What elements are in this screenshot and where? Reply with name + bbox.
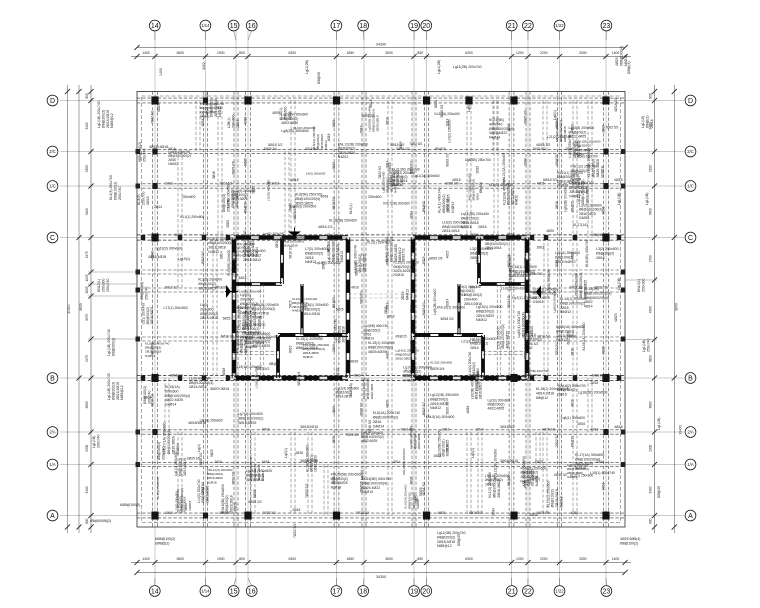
wall post (532,378) [530, 375, 534, 380]
beam left wing y272 [137, 270, 236, 274]
edge post left y432 [136, 430, 141, 435]
svg-text:3Ø18 3/2: 3Ø18 3/2 [500, 425, 514, 429]
svg-text:4Ø25: 4Ø25 [385, 350, 389, 358]
svg-text:2Ø14: 2Ø14 [154, 205, 162, 209]
svg-text:KL19(1A) 200x600: KL19(1A) 200x600 [235, 365, 263, 369]
svg-text:4Ø18: 4Ø18 [222, 367, 226, 375]
svg-text:2/C: 2/C [49, 149, 56, 154]
svg-text:2Ø18;2Ø18: 2Ø18;2Ø18 [375, 115, 379, 131]
secondary beam x496 [494, 101, 498, 238]
svg-text:1850: 1850 [346, 51, 354, 55]
svg-text:4Ø18: 4Ø18 [243, 116, 247, 124]
small column at (155,151.5) [152, 149, 157, 155]
svg-text:3Ø18 5/2: 3Ø18 5/2 [537, 334, 550, 338]
grid line 1/22 [559, 31, 561, 587]
svg-text:NØ8@12: NØ8@12 [120, 385, 124, 400]
svg-text:Ø8@100(2): Ø8@100(2) [556, 329, 574, 333]
svg-text:2Ø16: 2Ø16 [373, 420, 382, 424]
small column at (606,186) [603, 183, 608, 189]
beam right wing y272 [527, 270, 625, 274]
svg-text:3300: 3300 [579, 557, 587, 561]
svg-text:6Ø25 2/6: 6Ø25 2/6 [567, 331, 571, 344]
grid bubble 18 bottom [358, 578, 369, 596]
svg-text:2Ø16;3Ø20: 2Ø16;3Ø20 [476, 314, 494, 318]
svg-text:800: 800 [85, 518, 89, 524]
svg-text:15: 15 [230, 589, 238, 596]
svg-text:3Ø16: 3Ø16 [577, 422, 585, 426]
edge post left y339 [136, 337, 141, 342]
svg-text:3500: 3500 [385, 51, 393, 55]
svg-text:KL2(1) 250x600: KL2(1) 250x600 [570, 474, 593, 478]
beam label Lg1(1B) 200x740 [107, 329, 115, 356]
svg-text:2Ø14: 2Ø14 [315, 334, 323, 338]
svg-text:34300: 34300 [376, 575, 386, 579]
svg-text:3Ø18 5/2: 3Ø18 5/2 [332, 197, 336, 210]
secondary beam x198 [196, 101, 200, 152]
svg-text:5Ø25: 5Ø25 [415, 495, 419, 503]
svg-text:3Ø18 5/2: 3Ø18 5/2 [201, 251, 205, 264]
right core wall x479 [478, 238, 481, 285]
grid line 14 [154, 31, 156, 587]
svg-text:N4Ø14: N4Ø14 [362, 490, 373, 494]
svg-text:4Ø22;4Ø25: 4Ø22;4Ø25 [370, 383, 374, 399]
beam label KL16(1) 200x500 [510, 265, 537, 278]
svg-text:4Ø25: 4Ø25 [615, 57, 619, 66]
left core top wall [234, 236, 348, 240]
secondary beam x180 [178, 152, 182, 238]
section flag 2 [225, 285, 238, 298]
svg-text:3Ø16 3/2: 3Ø16 3/2 [524, 342, 538, 346]
svg-text:N4Ø14: N4Ø14 [261, 470, 265, 480]
svg-text:2Ø18: 2Ø18 [275, 240, 279, 248]
column at (514,100.5) [510, 97, 517, 105]
svg-text:4Ø22;4Ø25: 4Ø22;4Ø25 [487, 407, 504, 411]
svg-text:1/22: 1/22 [555, 23, 564, 28]
svg-text:6Ø25 2/6: 6Ø25 2/6 [354, 262, 358, 275]
right dimension chain [649, 85, 657, 533]
beam label 2&#216;16 [478, 225, 487, 229]
grid bubble 20 bottom [421, 578, 432, 596]
svg-text:1003: 1003 [85, 286, 89, 293]
svg-text:200x500: 200x500 [240, 297, 253, 301]
svg-text:Lg13(3) 300x600: Lg13(3) 300x600 [156, 246, 183, 250]
svg-text:2200: 2200 [540, 51, 548, 55]
beam on grid 20 [425, 92, 429, 528]
beam label 5&#216;25 [419, 487, 423, 496]
svg-text:6Ø18 3/2: 6Ø18 3/2 [422, 482, 426, 495]
svg-text:A: A [50, 513, 55, 520]
svg-text:2Ø18: 2Ø18 [332, 344, 336, 352]
svg-text:5Ø25: 5Ø25 [535, 460, 543, 464]
svg-text:6300: 6300 [288, 51, 296, 55]
column at (155,237.5) [151, 234, 158, 242]
left core beam x262 [260, 284, 264, 378]
beam label L7(2) 200x600 [305, 247, 328, 264]
beam label Lq8(1) 200x600 [205, 92, 222, 117]
svg-text:Lq3(1): Lq3(1) [471, 448, 475, 458]
svg-text:2Ø18: 2Ø18 [507, 123, 511, 131]
svg-text:2Ø18;3Ø25: 2Ø18;3Ø25 [497, 479, 501, 498]
svg-text:5Ø25 5/4: 5Ø25 5/4 [430, 367, 444, 371]
right core wall x483 [482, 335, 485, 378]
svg-text:2Ø18;3Ø25: 2Ø18;3Ø25 [446, 195, 450, 213]
svg-text:4Ø25;4Ø25: 4Ø25;4Ø25 [368, 350, 386, 354]
svg-text:Lg7(1): Lg7(1) [240, 293, 250, 297]
svg-text:Lg11(3B) 200x740: Lg11(3B) 200x740 [437, 531, 466, 535]
beam label KL3(3) [137, 192, 150, 205]
beam label 4&#216;18 2/2 [614, 98, 618, 112]
left core right wall [346, 238, 350, 379]
svg-text:4Ø16: 4Ø16 [332, 406, 336, 414]
svg-text:6Ø18 3/2: 6Ø18 3/2 [422, 402, 426, 415]
svg-text:20: 20 [422, 23, 430, 30]
beam label 5&#216;25 [157, 103, 161, 112]
secondary beam x293 [291, 101, 295, 238]
grid line A [60, 515, 684, 517]
grid bubble 22 top [523, 20, 534, 40]
beam label Lq1(1B) [617, 193, 621, 205]
svg-text:250x740: 250x740 [106, 279, 110, 292]
beam label &#216;8@100(2) [143, 386, 151, 404]
svg-text:3Ø18 5/2: 3Ø18 5/2 [170, 373, 183, 377]
beam label KNL3(1) [637, 279, 645, 292]
svg-text:5Ø25: 5Ø25 [210, 449, 214, 457]
svg-text:B: B [688, 376, 693, 383]
column at (426.5,100.5) [423, 97, 430, 105]
svg-text:800: 800 [649, 93, 653, 99]
svg-text:5Ø25: 5Ø25 [601, 346, 605, 354]
svg-text:2Ø14;2Ø18: 2Ø14;2Ø18 [189, 385, 207, 389]
beam right wing y290 [527, 288, 625, 292]
svg-text:N2Ø18: N2Ø18 [461, 225, 472, 229]
svg-text:4Ø16: 4Ø16 [239, 276, 247, 280]
svg-text:2Ø18: 2Ø18 [570, 348, 574, 356]
svg-text:2Ø18: 2Ø18 [555, 201, 559, 209]
svg-text:Ø8@25: Ø8@25 [395, 334, 406, 338]
grid bubble 1/A left [47, 459, 58, 470]
grid line 22 [527, 31, 529, 587]
grid bubble 16 bottom [246, 578, 257, 596]
secondary beam x167 [165, 378, 169, 432]
svg-text:KL14(5B) 400x740: KL14(5B) 400x740 [362, 477, 391, 481]
svg-text:Lg11(2B): Lg11(2B) [305, 60, 309, 74]
svg-text:4Ø16: 4Ø16 [571, 511, 579, 515]
svg-text:250x600: 250x600 [182, 195, 195, 199]
left sub-total dimension line 9600 [76, 85, 82, 533]
svg-text:1/22: 1/22 [555, 589, 564, 594]
svg-text:4Ø22;4Ø25: 4Ø22;4Ø25 [246, 341, 264, 345]
svg-text:6Ø25 2/6: 6Ø25 2/6 [231, 161, 235, 174]
svg-text:Ø8@12: Ø8@12 [536, 396, 548, 400]
svg-text:2Ø16: 2Ø16 [236, 119, 240, 128]
svg-text:3Ø18 5/2: 3Ø18 5/2 [199, 452, 203, 465]
svg-text:2Ø18;2Ø18: 2Ø18;2Ø18 [106, 110, 110, 128]
svg-text:21: 21 [508, 589, 516, 596]
svg-text:KL17(1A): KL17(1A) [573, 223, 588, 227]
svg-text:2Ø14;2Ø18: 2Ø14;2Ø18 [485, 246, 502, 250]
svg-text:2Ø16: 2Ø16 [457, 293, 465, 297]
svg-text:3Ø18 5/2: 3Ø18 5/2 [591, 373, 604, 377]
svg-text:N4Ø12: N4Ø12 [515, 195, 519, 205]
right sub-total dimension line [672, 85, 683, 533]
svg-text:4Ø18: 4Ø18 [614, 425, 623, 429]
svg-text:N4Ø12: N4Ø12 [168, 162, 178, 166]
beam label 4&#216;18 [614, 425, 623, 429]
beam row 1/C [137, 184, 625, 188]
beam corridor y296 [348, 294, 413, 298]
svg-text:2/C: 2/C [687, 149, 694, 154]
wall post (532,237.5) [530, 235, 534, 240]
grid line 1/C [60, 185, 684, 187]
svg-text:4Ø16: 4Ø16 [327, 133, 331, 141]
svg-text:4Ø18: 4Ø18 [332, 162, 336, 170]
secondary beam x575 [573, 101, 577, 238]
secondary beam x326 [324, 465, 328, 516]
beam label Lg1(1B) [92, 435, 100, 448]
svg-text:5Ø25: 5Ø25 [226, 220, 230, 228]
svg-text:Lg1(18): Lg1(18) [641, 116, 645, 128]
svg-text:7Ø22 5/2: 7Ø22 5/2 [507, 295, 511, 308]
svg-text:250x740: 250x740 [144, 287, 148, 300]
svg-text:2Ø14: 2Ø14 [143, 395, 151, 399]
svg-text:6Ø25 2/6: 6Ø25 2/6 [594, 285, 607, 289]
wall post (575,237.5) [573, 235, 577, 240]
svg-text:L4(3) 200x600: L4(3) 200x600 [306, 171, 326, 175]
left core wall x302 [301, 284, 303, 335]
beam label 4&#216;25 2/6 [293, 206, 297, 220]
svg-text:L15(1) 400x740: L15(1) 400x740 [590, 471, 615, 475]
svg-text:3Ø25;3Ø25: 3Ø25;3Ø25 [198, 286, 216, 290]
column at (155,378) [151, 374, 158, 382]
svg-text:7Ø22 5/2: 7Ø22 5/2 [293, 524, 297, 538]
svg-text:3400: 3400 [649, 486, 653, 493]
svg-text:Ø8@100/200(2): Ø8@100/200(2) [238, 416, 263, 420]
svg-text:N2Ø18: N2Ø18 [207, 480, 217, 484]
svg-text:7Ø22 5/2: 7Ø22 5/2 [605, 125, 618, 129]
secondary beam x180 [178, 238, 182, 291]
edge post left y290 [136, 288, 141, 293]
svg-text:L6(1A) 250x600: L6(1A) 250x600 [555, 251, 580, 255]
svg-text:Lq11(1A) 300x600: Lq11(1A) 300x600 [413, 174, 439, 178]
grid line D [60, 100, 684, 102]
grid bubble D left [47, 95, 58, 106]
svg-text:Ø8@100/200(4): Ø8@100/200(4) [295, 197, 320, 201]
svg-text:6Ø18 3/2: 6Ø18 3/2 [543, 178, 557, 182]
svg-text:Lg11(2B) 200x740: Lg11(2B) 200x740 [453, 65, 482, 69]
small column at (205.5,100.5) [203, 98, 208, 104]
edge post right y290 [621, 288, 626, 293]
beam label &#216;8@50&#216;8(2) [90, 519, 111, 523]
svg-text:5Ø18 3/2: 5Ø18 3/2 [165, 285, 178, 289]
beam label L6(1A) 250x600 [555, 251, 580, 264]
beam label Lg11(2B) [437, 60, 441, 74]
svg-text:N4Ø12: N4Ø12 [430, 406, 441, 410]
svg-text:4Ø25: 4Ø25 [546, 229, 554, 233]
svg-text:6Ø18 3/2: 6Ø18 3/2 [469, 511, 482, 515]
svg-text:7Ø22 5/2: 7Ø22 5/2 [263, 511, 276, 515]
svg-text:L21(3) 200x740: L21(3) 200x740 [461, 340, 485, 344]
svg-text:4300: 4300 [649, 306, 653, 313]
edge post right y186 [621, 184, 626, 189]
svg-text:2Ø18: 2Ø18 [560, 306, 569, 310]
beam label Lg10(2) 200x500 [470, 337, 497, 350]
beam label KL17(1A) 300x600 [575, 453, 604, 470]
left extension line y296 [88, 295, 137, 297]
grid bubble 14 bottom [149, 578, 160, 596]
beam label KL10(1) 200x500 [560, 297, 587, 314]
svg-text:9600: 9600 [79, 303, 83, 311]
svg-text:2475: 2475 [85, 251, 89, 258]
svg-text:L19(2) 250x700: L19(2) 250x700 [255, 367, 259, 388]
beam row 1/A [137, 462, 625, 466]
svg-text:KL4(1) 400x740: KL4(1) 400x740 [438, 188, 442, 213]
grid line 19 [413, 31, 415, 587]
grid line 23 [605, 31, 607, 587]
bottom dimension chain [131, 557, 631, 565]
wall post (204,378) [202, 375, 206, 380]
svg-text:2Ø16: 2Ø16 [214, 460, 222, 464]
svg-text:2Ø18;2Ø18: 2Ø18;2Ø18 [437, 540, 455, 544]
secondary beam x590 [588, 101, 592, 238]
svg-text:Ø8@100/200(2): Ø8@100/200(2) [560, 301, 585, 305]
beam label L2B(1) [227, 115, 240, 128]
beam label KL11(1) [524, 333, 542, 350]
svg-text:4Ø18: 4Ø18 [290, 178, 299, 182]
svg-text:4Ø12: 4Ø12 [524, 346, 533, 350]
grid bubble 1/22 top [554, 20, 565, 40]
beam label 4&#216;18 2/2 [536, 143, 550, 147]
beam label &#216;8@25 [457, 534, 461, 546]
svg-text:6Ø8@100(2): 6Ø8@100(2) [155, 537, 175, 541]
svg-text:N4Ø14: N4Ø14 [451, 202, 455, 213]
svg-text:Lg1(1B): Lg1(1B) [92, 436, 96, 448]
svg-text:4Ø22: 4Ø22 [584, 300, 593, 304]
svg-text:16: 16 [248, 589, 256, 596]
svg-text:Lg1(1B) 200x740: Lg1(1B) 200x740 [107, 373, 111, 400]
dense beam annotation filler [142, 102, 615, 512]
svg-text:18: 18 [359, 589, 367, 596]
svg-text:G4Ø14: G4Ø14 [530, 326, 534, 337]
svg-text:KL6(5B) 250x700: KL6(5B) 250x700 [295, 192, 322, 196]
svg-text:7Ø22 5/2: 7Ø22 5/2 [555, 434, 559, 447]
beam label &#216;6@150(2) [464, 293, 482, 306]
svg-text:N2Ø18: N2Ø18 [558, 184, 569, 188]
svg-text:G4Ø14: G4Ø14 [579, 216, 590, 220]
svg-text:Ø8@50Ø8(2): Ø8@50Ø8(2) [90, 519, 111, 523]
edge post right y272 [621, 270, 626, 275]
svg-text:L2B(1): L2B(1) [227, 117, 231, 128]
beam label KL21(5B) [489, 118, 514, 140]
secondary beam x545 [543, 432, 547, 516]
svg-text:7Ø22 5/2: 7Ø22 5/2 [378, 166, 382, 179]
grid bubble 21 bottom [506, 578, 517, 596]
beam on grid 22 [526, 92, 530, 528]
svg-text:3400: 3400 [85, 208, 89, 215]
svg-text:3Ø18 5/2: 3Ø18 5/2 [215, 285, 228, 289]
beam label Lg9(1) [530, 477, 540, 481]
svg-text:2Ø16: 2Ø16 [359, 125, 363, 133]
svg-text:Ø8@25: Ø8@25 [359, 481, 363, 492]
beam label Lg15(1) 200x500 [476, 305, 503, 322]
svg-text:4Ø18: 4Ø18 [614, 178, 623, 182]
svg-text:19: 19 [410, 23, 418, 30]
grid line C [60, 237, 684, 239]
svg-text:5Ø25: 5Ø25 [422, 256, 426, 264]
svg-text:2Ø18: 2Ø18 [650, 119, 654, 128]
beam row 2/A [137, 430, 625, 434]
svg-text:2Ø16: 2Ø16 [523, 158, 527, 166]
grid bubble 23 bottom [601, 578, 612, 596]
svg-text:2Ø18;2Ø18: 2Ø18;2Ø18 [563, 126, 567, 142]
svg-text:Lq7(1) 200x600: Lq7(1) 200x600 [512, 296, 537, 300]
svg-text:L9(1): L9(1) [200, 303, 208, 307]
beam label Lg1(1) 200x600 [174, 451, 187, 476]
svg-text:C: C [50, 235, 55, 242]
beam label Lg1(1B) [617, 278, 621, 290]
secondary beam x293 [291, 432, 295, 516]
svg-text:Ø8@25: Ø8@25 [555, 154, 559, 165]
beam row A (frame beam) [137, 513, 625, 518]
svg-text:4Ø16: 4Ø16 [591, 427, 599, 431]
svg-text:Ø8@25: Ø8@25 [457, 534, 461, 546]
column at (155,515.5) [151, 512, 158, 520]
svg-text:800: 800 [239, 557, 245, 561]
svg-text:4Ø14: 4Ø14 [584, 305, 593, 309]
svg-text:N4Ø14: N4Ø14 [176, 443, 180, 454]
svg-text:21: 21 [508, 23, 516, 30]
beam on grid 17 [334, 92, 339, 528]
svg-text:6Ø18 3/2: 6Ø18 3/2 [249, 500, 262, 504]
right core wall y284 [479, 283, 527, 286]
secondary beam x590 [588, 378, 592, 432]
svg-text:5Ø25: 5Ø25 [252, 186, 256, 194]
grid line 2/C [60, 151, 684, 153]
svg-text:7Ø22 5/2: 7Ø22 5/2 [231, 471, 235, 484]
right core partition y353 [483, 351, 527, 355]
svg-text:2Ø18: 2Ø18 [292, 508, 300, 512]
svg-text:Ø8@100/200(4): Ø8@100/200(4) [362, 481, 387, 485]
svg-text:Ø8@200(2): Ø8@200(2) [200, 312, 218, 316]
svg-text:KL1(3) 200x500: KL1(3) 200x500 [488, 472, 492, 497]
beam label Lg11(2B) [305, 60, 309, 74]
svg-text:1400: 1400 [142, 51, 150, 55]
secondary beam x310 [308, 432, 312, 516]
edge post left y186 [136, 184, 141, 189]
svg-text:KL21(2B) 200x740: KL21(2B) 200x740 [392, 168, 420, 172]
svg-text:Ø8@25: Ø8@25 [435, 147, 446, 151]
left extension line y339 [88, 338, 137, 340]
beam label 4&#216;18/3&#216;18 [188, 421, 206, 425]
svg-text:3Ø18/2Ø16: 3Ø18/2Ø16 [500, 459, 518, 463]
wall post (619,378) [617, 375, 621, 380]
beam label KL15(1) 200x450 [296, 337, 323, 350]
svg-text:KL21(5B): KL21(5B) [489, 118, 504, 122]
beam label Lg1(1B) [642, 339, 650, 352]
beam label L3(2) 200x500 [596, 247, 619, 260]
svg-text:5Ø25: 5Ø25 [157, 103, 161, 112]
beam label 4&#216;25 [615, 46, 628, 66]
right core right wall [525, 238, 529, 379]
svg-text:7Ø22 5/2: 7Ø22 5/2 [356, 511, 369, 515]
beam label Lg12(1B) 250x600 [430, 393, 459, 410]
grid bubble 19 bottom [409, 578, 420, 596]
beam label &#216;8@100(2) [157, 442, 165, 460]
svg-text:7Ø22 5/2: 7Ø22 5/2 [409, 142, 422, 146]
svg-text:2Ø16: 2Ø16 [150, 251, 154, 259]
beam label KL5(1A) [349, 383, 353, 396]
svg-text:6Ø25 2/6: 6Ø25 2/6 [445, 181, 458, 185]
svg-text:Lg1(1B): Lg1(1B) [642, 340, 646, 352]
